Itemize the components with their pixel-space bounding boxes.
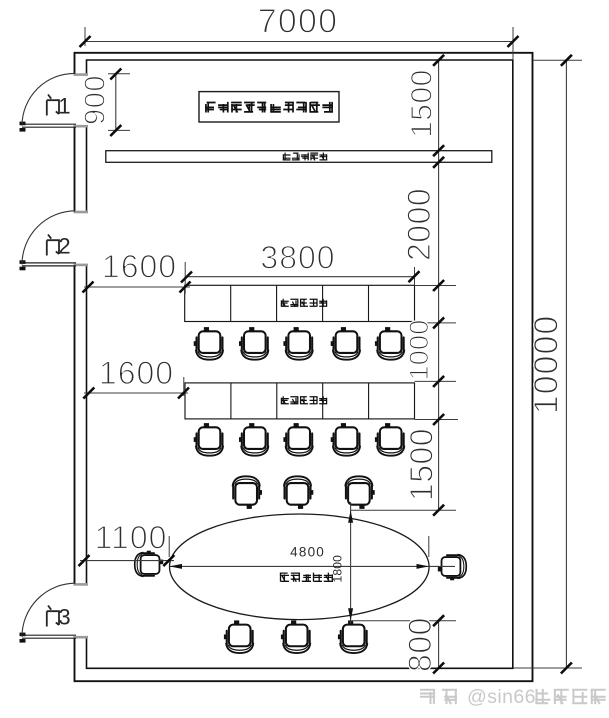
svg-text:800: 800: [402, 617, 438, 672]
svg-text:1600: 1600: [102, 248, 177, 284]
chair above ellipse #3: [345, 476, 374, 509]
chain extension lines: [351, 286, 458, 621]
chair row1 #4: [331, 327, 360, 360]
door D1 swing arc: [22, 73, 76, 125]
equipment room label box 大屏幕维修及设备机房: [199, 92, 339, 122]
svg-text:3: 3: [58, 605, 70, 630]
dimension 1600 upper: [84, 286, 190, 288]
desk row 1 接警调度区: [185, 285, 415, 321]
svg-text:900: 900: [80, 75, 112, 125]
dimension 900 door1: [115, 74, 117, 131]
door D2 swing arc: [22, 211, 76, 265]
svg-text:1500: 1500: [405, 69, 438, 138]
dimension 1600 lower: [84, 392, 188, 394]
chair below ellipse #1: [224, 620, 253, 653]
chair row2 #2: [239, 423, 268, 456]
chair right of ellipse: [438, 555, 466, 581]
dimension 7000 top: [85, 41, 513, 43]
door D2 leaf: [22, 263, 76, 266]
watermark 知乎 @sin66智慧导航: [420, 689, 435, 704]
door D3 swing arc: [22, 583, 76, 637]
chair row1 #5: [375, 327, 404, 360]
door D2 label 门2: [47, 235, 59, 256]
svg-text:2000: 2000: [401, 188, 437, 261]
chair row2 #5: [375, 423, 404, 456]
svg-text:2: 2: [58, 234, 70, 259]
chair above ellipse #1: [233, 476, 262, 509]
svg-text:1: 1: [58, 94, 70, 119]
dimension 1800 vertical in ellipse: [350, 502, 352, 624]
wall inner: [87, 60, 513, 668]
dimension chain right: line: [438, 60, 440, 668]
chair row2 #1: [194, 423, 223, 456]
conference table ellipse 作战研讨区: [169, 514, 429, 620]
svg-text:10000: 10000: [528, 315, 566, 415]
dimension 1100: [80, 560, 174, 562]
svg-text:@sin66: @sin66: [467, 686, 536, 708]
chair left of ellipse: [135, 551, 163, 577]
chain ticks: [433, 55, 444, 66]
svg-text:1600: 1600: [99, 355, 174, 391]
chair row1 #1: [194, 327, 223, 360]
door D1 leaf: [22, 124, 76, 127]
dimension 3800: [186, 276, 415, 278]
wall outer: [75, 53, 533, 681]
dimension 10000 right: [565, 60, 567, 668]
door D1 label 门1: [47, 95, 59, 116]
svg-text:1000: 1000: [404, 320, 434, 381]
svg-text:4800: 4800: [290, 545, 325, 560]
door D3 leaf: [22, 635, 76, 638]
chair row1 #3: [283, 327, 312, 360]
display screen zone 显示屏幕区: [106, 151, 492, 163]
svg-text:1800: 1800: [330, 555, 344, 583]
chair row2 #4: [331, 423, 360, 456]
chair above ellipse #2: [284, 476, 313, 509]
dimension 4800 across ellipse: [170, 565, 456, 567]
chair below ellipse #2: [281, 620, 310, 653]
svg-text:1500: 1500: [404, 428, 440, 501]
door D3 jamb caps: [74, 584, 89, 637]
chair row1 #2: [239, 327, 268, 360]
chair row2 #3: [283, 423, 312, 456]
svg-text:7000: 7000: [258, 3, 338, 41]
svg-text:3800: 3800: [260, 240, 335, 276]
chair below ellipse #3: [338, 620, 367, 653]
door D2 jamb caps: [74, 212, 89, 265]
desk row 2 label: [281, 396, 289, 404]
door D3 label 门3: [47, 606, 59, 627]
desk row 1 label: [281, 299, 289, 307]
desk row 2 接警调度区: [185, 383, 415, 419]
svg-text:1100: 1100: [95, 520, 168, 556]
door D1 jamb caps: [74, 75, 89, 127]
